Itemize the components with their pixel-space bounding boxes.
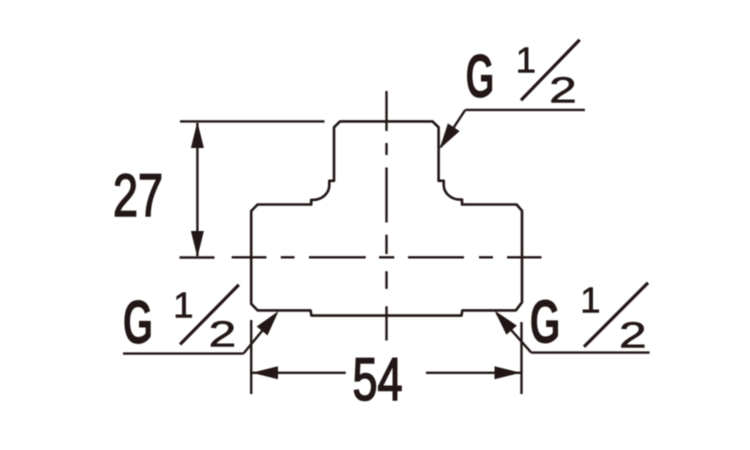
leader top-right: horizontal	[465, 109, 585, 111]
vertical centerline	[385, 91, 387, 341]
dim 54: extension line left	[250, 320, 252, 394]
leader bottom-left: diagonal	[243, 314, 276, 354]
leader top-right: arrowhead	[440, 123, 460, 149]
label slash bottom-right	[584, 283, 648, 347]
dim 27: arrow up	[191, 122, 204, 148]
leader top-right: diagonal	[441, 110, 465, 147]
leader bottom-left: arrowhead	[257, 311, 279, 335]
svg-text:1: 1	[173, 285, 193, 326]
leader bottom-right: diagonal	[497, 314, 531, 353]
svg-text:27: 27	[113, 163, 163, 230]
dim 27: dimension line	[196, 123, 198, 256]
svg-text:2: 2	[209, 315, 237, 355]
dim 54: arrow left	[252, 366, 278, 379]
horizontal centerline	[232, 256, 542, 258]
svg-text:G: G	[530, 288, 561, 357]
dim 27: arrow down	[191, 231, 204, 257]
dim 27: extension line top	[180, 120, 325, 122]
dim 54: extension line right	[520, 322, 522, 394]
dim 27: tick bottom	[180, 256, 215, 258]
svg-text:G: G	[123, 287, 153, 356]
dim 54: line left segment	[252, 372, 346, 374]
svg-text:G: G	[466, 42, 495, 111]
leader bottom-right: arrowhead	[495, 311, 517, 335]
svg-text:2: 2	[549, 71, 577, 111]
svg-text:2: 2	[619, 316, 647, 356]
label slash top-right	[521, 40, 580, 101]
svg-text:1: 1	[580, 280, 600, 321]
dim 54: arrow right	[495, 366, 521, 379]
dim 54: line right segment	[426, 372, 521, 374]
svg-text:54: 54	[352, 347, 402, 414]
label slash bottom-left	[180, 285, 239, 345]
leader bottom-right: horizontal	[531, 351, 649, 353]
leader bottom-left: horizontal	[123, 352, 243, 354]
svg-text:1: 1	[516, 40, 536, 81]
tee fitting body outline	[251, 121, 522, 315]
